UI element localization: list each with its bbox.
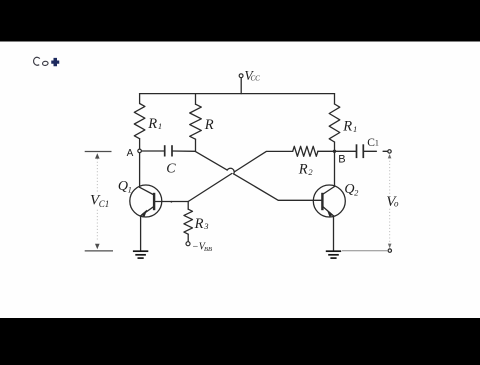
svg-text:1: 1 (375, 139, 379, 148)
svg-text:C1: C1 (99, 199, 110, 209)
svg-text:C: C (166, 161, 176, 176)
svg-text:A: A (127, 148, 134, 159)
svg-text:R: R (342, 119, 352, 135)
svg-text:Q: Q (118, 179, 128, 194)
svg-text:R: R (298, 162, 308, 178)
svg-text:1: 1 (158, 121, 162, 131)
svg-text:1: 1 (128, 185, 132, 195)
svg-text:o: o (394, 198, 399, 208)
svg-text:BB: BB (204, 246, 212, 253)
svg-text:2: 2 (308, 167, 313, 177)
svg-text:R: R (194, 216, 204, 232)
svg-text:2: 2 (354, 187, 359, 197)
svg-text:R: R (204, 117, 214, 133)
svg-text:1: 1 (353, 124, 357, 134)
svg-text:B: B (338, 154, 345, 166)
svg-text:R: R (147, 116, 157, 132)
svg-text:3: 3 (203, 221, 208, 231)
svg-text:Q: Q (344, 182, 354, 197)
svg-text:CC: CC (251, 75, 261, 83)
